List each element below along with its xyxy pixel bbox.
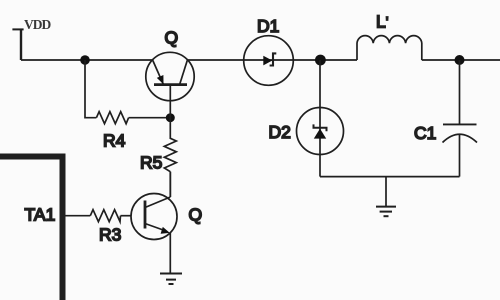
wire: R3 to Q2 base [121, 215, 132, 217]
svg-text:R3: R3 [99, 225, 121, 245]
svg-text:R4: R4 [103, 131, 126, 151]
wire: junction down through D2 to bottom rail [319, 60, 321, 177]
transistor Q1 (PNP, top) [146, 52, 194, 117]
ground (middle) [376, 177, 396, 217]
wire: R4 to base node [129, 117, 171, 119]
resistor R4 [96, 112, 128, 124]
svg-text:Q: Q [165, 28, 179, 48]
block TA1 edge [0, 157, 63, 300]
svg-text:C1: C1 [414, 123, 436, 143]
diode D2 (schottky, in circle) [297, 108, 344, 155]
inductor L' [357, 36, 422, 60]
wire: bottom rail [320, 176, 460, 178]
node: base junction [166, 113, 175, 122]
wire: VDD rail to Q1 emitter crossing [21, 59, 153, 61]
capacitor C1 [443, 60, 478, 177]
transistor Q2 (NPN, bottom) [131, 172, 177, 274]
svg-text:D2: D2 [269, 122, 291, 142]
node: junction at C1 top [455, 55, 465, 65]
svg-text:D1: D1 [257, 16, 279, 36]
wire: TA1 to R3 [66, 215, 91, 217]
svg-text:Q: Q [189, 205, 203, 225]
node: rail junction left [80, 55, 90, 65]
diode D1 (schottky, in circle) [244, 36, 294, 86]
resistor R3 [90, 210, 120, 222]
wire: Q1 collector crossing through D1 to inductor [187, 59, 357, 61]
svg-text:L': L' [376, 12, 388, 32]
svg-text:TA1: TA1 [25, 205, 56, 225]
wire: inductor to right edge [422, 59, 500, 61]
node: junction at D2 top [315, 55, 326, 66]
svg-text:VDD: VDD [24, 17, 51, 32]
VDD power symbol [12, 29, 23, 60]
wire: R5 to Q2 collector [169, 172, 171, 197]
resistor R5 [164, 118, 176, 172]
svg-text:R5: R5 [140, 153, 162, 173]
wire: junction down to R4 [85, 60, 96, 118]
ground (under Q2) [160, 274, 182, 285]
